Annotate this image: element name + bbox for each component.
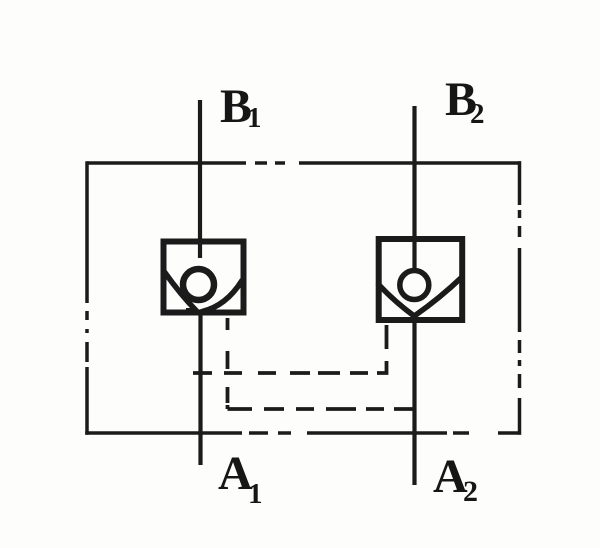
svg-text:2: 2	[463, 475, 478, 508]
enclosure left edge (dash-dot)	[85, 161, 89, 435]
pilot line to CV2 (dashed vertical)	[385, 325, 389, 349]
pilot line from CV1 (dashed vertical)	[226, 318, 230, 403]
check valve CV1 seat left arm	[165, 272, 198, 312]
wire port A2	[412, 316, 416, 485]
check valve CV1 box	[164, 242, 244, 313]
check valve CV1 ball	[183, 269, 214, 300]
check valve CV2 seat right arm	[415, 277, 462, 316]
enclosure bottom edge (dash-dot)	[85, 431, 521, 435]
label B2	[445, 73, 485, 130]
check valve CV1 seat right arm	[202, 281, 242, 312]
enclosure top edge (dash-dot)	[87, 161, 521, 165]
pilot line upper horizontal run from A1	[193, 361, 387, 373]
check valve CV2 box	[379, 239, 463, 320]
wire port B1	[198, 100, 202, 258]
wire port A1	[198, 310, 202, 465]
check valve CV2 seat left arm	[379, 285, 414, 316]
svg-text:1: 1	[247, 102, 262, 134]
enclosure right edge (dash-dot)	[518, 161, 522, 435]
svg-text:2: 2	[470, 98, 485, 130]
check valve CV2 ball	[400, 271, 429, 300]
wire port B2	[412, 106, 416, 268]
label A2	[433, 450, 478, 508]
label B1	[220, 80, 262, 134]
svg-text:1: 1	[248, 478, 263, 510]
pilot line lower horizontal run to A2	[228, 405, 414, 409]
label A1	[218, 447, 263, 510]
check valve CV1 seat tick	[186, 308, 197, 313]
